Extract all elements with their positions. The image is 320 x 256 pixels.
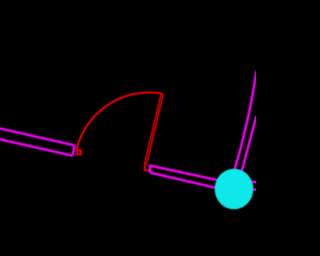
wall W3 bottom line stub — [245, 188, 257, 189]
wall W4 left line (diagonal, magenta) — [234, 71, 257, 172]
wall W2 start cap (magenta) — [149, 165, 152, 173]
door swing arc — [77, 92, 161, 146]
door jamb J1 (red step at wall W1 end) — [77, 146, 81, 154]
wall W4 right line — [240, 116, 257, 178]
door leaf right line — [147, 94, 163, 163]
wall W1 top line (left wall, magenta) — [0, 128, 75, 145]
wall W2 bottom line — [150, 173, 218, 189]
door jamb J2 (red step at hinge) — [145, 163, 150, 170]
wall W2 top line (door to column) — [150, 166, 218, 181]
column C1 (cyan filled circle) — [215, 169, 254, 210]
wall W1 bottom line — [0, 139, 73, 156]
door leaf top cap — [161, 93, 163, 96]
wall W3 top line stub (right of column) — [247, 181, 257, 182]
wall W1 end cap — [73, 145, 75, 155]
door leaf left line — [145, 94, 161, 163]
door leaf bottom cap — [145, 163, 147, 166]
